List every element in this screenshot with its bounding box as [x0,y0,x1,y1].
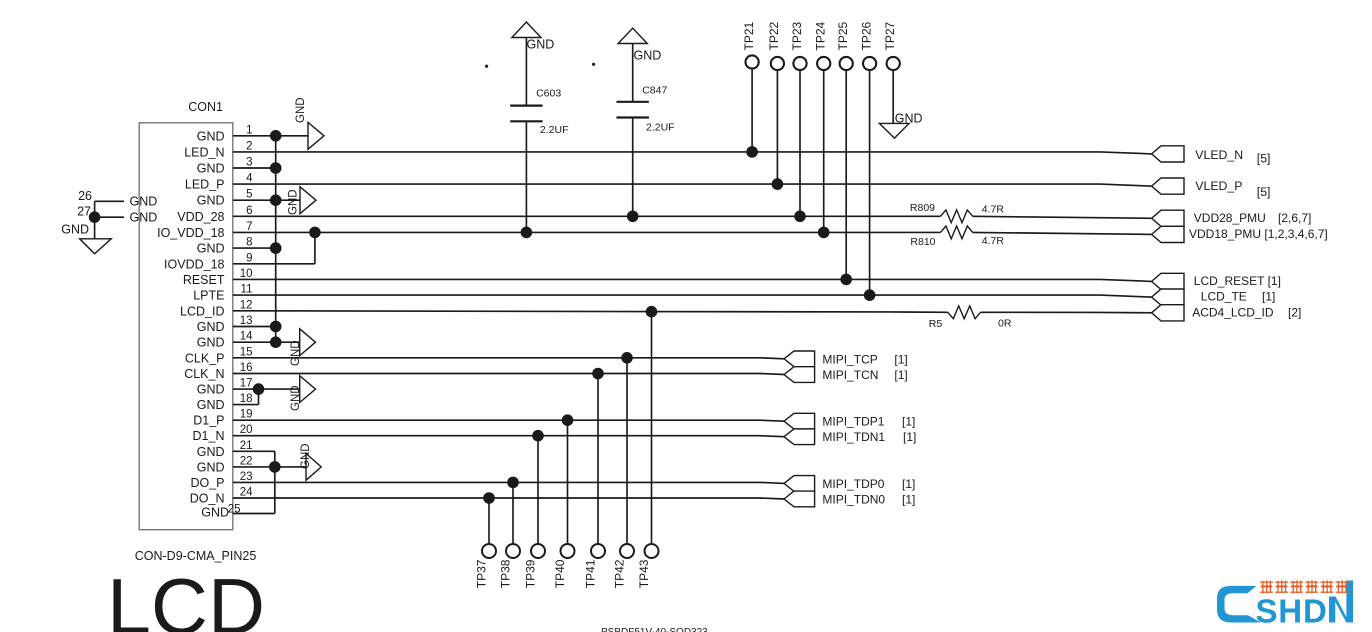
svg-text:DO_P: DO_P [190,476,224,490]
svg-text:GND: GND [197,383,225,397]
svg-text:LCD_TE: LCD_TE [1201,290,1247,304]
svg-text:C847: C847 [642,85,667,97]
svg-text:GND: GND [197,320,225,334]
svg-text:4: 4 [246,173,253,185]
svg-text:21: 21 [240,440,253,452]
svg-text:6: 6 [246,205,252,217]
svg-text:VDD28_PMU: VDD28_PMU [1194,211,1266,225]
svg-text:TP39: TP39 [523,559,537,588]
svg-text:5: 5 [246,189,252,201]
svg-text:D1_P: D1_P [193,414,224,428]
svg-text:[2]: [2] [1288,305,1301,319]
svg-text:R810: R810 [910,236,935,248]
svg-text:LCD: LCD [107,562,265,632]
svg-text:27: 27 [77,205,91,219]
svg-text:23: 23 [240,471,253,483]
svg-text:R809: R809 [910,202,935,214]
svg-text:GND: GND [197,460,225,474]
svg-text:3: 3 [246,157,252,169]
svg-text:TP22: TP22 [767,21,781,50]
svg-text:GND: GND [527,37,555,51]
svg-text:[5]: [5] [1257,151,1271,165]
svg-text:TP42: TP42 [612,559,626,588]
svg-text:25: 25 [228,504,241,516]
svg-text:C603: C603 [536,88,561,100]
svg-text:RESET: RESET [183,273,225,287]
svg-text:TP25: TP25 [836,21,850,50]
svg-text:24: 24 [240,487,253,499]
svg-text:GND: GND [197,398,225,412]
svg-text:15: 15 [240,346,253,358]
svg-text:22: 22 [240,455,253,467]
svg-text:LCD_ID: LCD_ID [180,304,224,318]
svg-text:9: 9 [246,252,252,264]
svg-text:12: 12 [240,299,253,311]
svg-text:IOVDD_18: IOVDD_18 [164,257,224,271]
svg-text:MIPI_TCN: MIPI_TCN [822,368,878,382]
svg-text:GND: GND [197,242,225,256]
svg-text:26: 26 [78,189,92,203]
svg-text:MIPI_TCP: MIPI_TCP [822,352,877,366]
svg-text:14: 14 [240,331,253,343]
svg-text:TP40: TP40 [553,559,567,588]
svg-text:4.7R: 4.7R [982,204,1005,216]
svg-text:MIPI_TDP0: MIPI_TDP0 [822,477,884,491]
svg-text:TP41: TP41 [583,559,597,588]
svg-text:11: 11 [241,284,253,296]
svg-text:GND: GND [300,443,312,469]
svg-text:LPTE: LPTE [193,289,224,303]
svg-text:ACD4_LCD_ID: ACD4_LCD_ID [1192,305,1274,319]
svg-text:TP43: TP43 [637,559,651,588]
svg-text:LCD_RESET [1]: LCD_RESET [1] [1194,274,1281,288]
svg-text:GND: GND [197,162,225,176]
svg-text:10: 10 [240,268,253,280]
svg-text:GND: GND [197,194,225,208]
svg-text:GND: GND [130,195,158,209]
svg-text:LED_P: LED_P [185,178,225,192]
svg-text:GND: GND [201,506,229,520]
svg-text:[1]: [1] [903,430,916,444]
svg-text:TP27: TP27 [883,21,897,50]
svg-text:CON1: CON1 [188,100,223,114]
svg-text:TP23: TP23 [790,21,804,50]
svg-text:[1]: [1] [894,368,907,382]
svg-text:VDD18_PMU [1,2,3,4,6,7]: VDD18_PMU [1,2,3,4,6,7] [1189,227,1328,241]
svg-text:18: 18 [240,393,253,405]
svg-text:19: 19 [240,409,253,421]
svg-text:MIPI_TDP1: MIPI_TDP1 [822,415,884,429]
svg-text:GND: GND [197,336,225,350]
svg-text:13: 13 [240,315,253,327]
svg-text:GND: GND [290,340,302,366]
svg-text:[1]: [1] [902,477,915,491]
svg-text:GND: GND [288,189,300,215]
svg-text:0R: 0R [998,318,1012,330]
svg-text:[1]: [1] [1262,290,1275,304]
svg-text:TP24: TP24 [814,21,828,50]
svg-text:PSBDF51V-40-SOD323: PSBDF51V-40-SOD323 [601,627,708,632]
svg-text:GND: GND [895,112,923,126]
svg-text:GND: GND [197,129,225,143]
svg-text:VDD_28: VDD_28 [177,210,224,224]
svg-text:20: 20 [240,424,253,436]
svg-text:[1]: [1] [894,352,907,366]
svg-text:R5: R5 [929,318,943,330]
svg-text:D1_N: D1_N [193,429,225,443]
svg-text:[1]: [1] [902,415,915,429]
svg-text:2.2UF: 2.2UF [646,122,675,134]
svg-text:1: 1 [246,124,252,136]
svg-text:GND: GND [130,211,158,225]
svg-text:TP26: TP26 [859,21,873,50]
svg-text:16: 16 [240,362,253,374]
svg-text:[5]: [5] [1257,185,1271,199]
svg-text:LED_N: LED_N [184,145,224,159]
svg-text:2: 2 [246,140,252,152]
svg-text:VLED_N: VLED_N [1195,148,1243,162]
svg-text:TP21: TP21 [742,21,756,50]
svg-text:8: 8 [246,237,252,249]
svg-text:DO_N: DO_N [190,492,225,506]
svg-text:GND: GND [290,385,302,411]
svg-text:7: 7 [246,221,252,233]
svg-text:MIPI_TDN1: MIPI_TDN1 [822,430,885,444]
svg-text:2.2UF: 2.2UF [540,124,569,136]
svg-text:IO_VDD_18: IO_VDD_18 [157,226,224,240]
svg-text:MIPI_TDN0: MIPI_TDN0 [822,493,885,507]
svg-text:CLK_P: CLK_P [185,351,225,365]
svg-text:CLK_N: CLK_N [184,367,224,381]
svg-text:17: 17 [240,378,253,390]
svg-text:[2,6,7]: [2,6,7] [1278,211,1311,225]
svg-text:GND: GND [61,223,89,237]
svg-text:VLED_P: VLED_P [1195,179,1242,193]
svg-text:[1]: [1] [902,493,915,507]
svg-text:GND: GND [295,97,307,123]
svg-text:TP37: TP37 [474,559,488,588]
svg-text:SHD: SHD [1256,593,1328,630]
svg-text:TP38: TP38 [498,559,512,588]
svg-text:GND: GND [634,49,662,63]
svg-text:GND: GND [197,445,225,459]
svg-text:4.7R: 4.7R [982,235,1005,247]
